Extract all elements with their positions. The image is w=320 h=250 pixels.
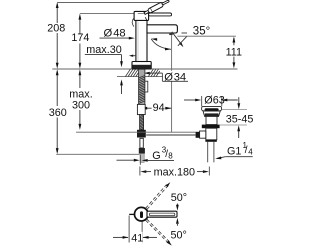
svg-text:Ø63: Ø63: [204, 95, 224, 107]
tick line bottom of hose (360 level): [56, 153, 139, 155]
plug dark lens: [205, 108, 219, 111]
deck bottom line: [117, 76, 163, 78]
linkage rod top line (also max.300 tick): [76, 131, 196, 133]
svg-text:300: 300: [72, 100, 90, 112]
base gasket dark band: [132, 65, 151, 69]
svg-text:G1: G1: [227, 146, 241, 158]
basin line lower: [220, 124, 247, 126]
hose nut (dark): [139, 148, 145, 154]
G3/8 nipple: [140, 154, 144, 163]
svg-text:174: 174: [71, 32, 89, 44]
svg-text:max.: max.: [69, 88, 92, 100]
label 50 deg lower with up arrow: [171, 218, 187, 242]
hose tube: [140, 138, 143, 148]
label 174: [71, 32, 92, 44]
swing arc with arrowheads: [151, 38, 171, 50]
lever socket mark: [145, 17, 147, 20]
waste tailpiece tube: [208, 142, 214, 163]
flange taper: [203, 111, 220, 116]
deck hatch left of faucet hole: [125, 69, 138, 77]
svg-text:max.180: max.180: [154, 167, 195, 179]
svg-text:360: 360: [49, 107, 67, 119]
dimension 35-45: [224, 97, 254, 138]
waste dark band: [205, 140, 216, 142]
shank nut: [137, 104, 145, 114]
label max.30 with bent leader arrow to deck: [85, 44, 123, 94]
lever swing arc left of cap: [132, 18, 134, 26]
dashed swing line up-right: [146, 182, 171, 209]
dimension 360 line: [56, 69, 59, 154]
dimension 208 line: [56, 2, 59, 69]
label 208: [47, 23, 68, 35]
svg-text:94: 94: [153, 102, 165, 114]
svg-text:111: 111: [226, 47, 242, 59]
svg-text:G: G: [152, 150, 160, 162]
label G3/8 with underline and arrow: [142, 146, 174, 162]
deck hatch right of faucet hole: [148, 69, 160, 77]
svg-text:50°: 50°: [171, 230, 187, 242]
35 deg label leader: [178, 36, 187, 46]
lever horizontal: [149, 13, 172, 16]
faucet top cap: [134, 11, 149, 20]
top view lever bar: [147, 211, 177, 217]
label max. 300 (two lines, white bg over dim line): [68, 88, 94, 112]
svg-text:Ø34: Ø34: [164, 72, 186, 84]
faucet base flange: [132, 62, 151, 70]
waste side port: [200, 131, 206, 138]
svg-text:208: 208: [47, 23, 65, 35]
tick line top of body (174 level): [80, 12, 135, 14]
top view circle (faucet body from above): [135, 207, 149, 221]
pop-up waste plug cap: [202, 106, 222, 110]
pull rod guide box on shank: [145, 81, 148, 92]
stream / pop-up rod vertical line: [171, 35, 173, 132]
label 35deg with underline (also 111 top tick): [177, 26, 236, 38]
small arrow left of body: [129, 55, 136, 57]
svg-text:41: 41: [131, 233, 143, 245]
threaded shank (hatched): [139, 69, 145, 104]
svg-text:35-45: 35-45: [226, 114, 254, 126]
top view lever tail: [129, 213, 135, 215]
35 deg stream line with arrowhead: [172, 32, 184, 47]
label 50 deg upper with down arrow: [171, 192, 187, 211]
label 360: [47, 106, 69, 119]
dimension 41: [113, 216, 157, 245]
junction block (dark): [137, 130, 146, 138]
spout: [147, 25, 177, 33]
small arrow pointing right at hose: [117, 155, 141, 165]
dimension max.300 line: [79, 69, 82, 130]
aerator: [169, 33, 172, 35]
svg-text:4: 4: [248, 147, 253, 156]
deck top line: [52, 68, 237, 70]
tick line top of lever (208 level): [57, 2, 168, 4]
dashed swing line down-right: [146, 219, 172, 245]
dimension D63: [184, 95, 238, 107]
hose braid below nut: [140, 115, 144, 131]
top view lever inner detail: [150, 213, 175, 216]
waste threaded body: [206, 128, 217, 140]
dimension 94: [141, 102, 171, 114]
top view center bar: [140, 211, 143, 218]
waste gasket (dark): [202, 125, 220, 129]
label D34 with bent leader and arrow to shank: [144, 71, 189, 84]
basin line right of waste (upper): [222, 109, 247, 111]
faucet body: [136, 20, 147, 61]
waste upper body: [206, 116, 217, 124]
label D48 with underline and arrow to body: [100, 28, 135, 40]
lever raised (35 deg position): [144, 0, 170, 15]
dimension max.180: [140, 167, 209, 179]
dimension 111 line: [225, 37, 242, 69]
linkage rod bottom line: [146, 134, 195, 136]
label G1 1/4 with underline and leader arrow: [215, 141, 253, 159]
svg-text:8: 8: [168, 152, 173, 161]
svg-text:50°: 50°: [171, 192, 187, 204]
dimension 174 line: [79, 14, 82, 69]
